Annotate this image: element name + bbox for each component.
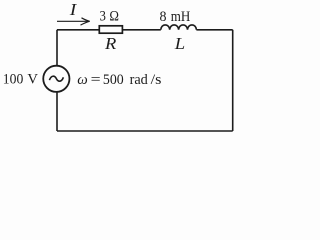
wire left vertical upper [56,30,58,66]
resistor R [99,26,122,33]
wire right vertical [232,30,234,131]
svg-text:500: 500 [103,72,124,88]
svg-text:ω: ω [77,72,88,88]
wire top rail middle segment [123,29,161,31]
svg-text:=: = [91,72,101,88]
svg-text:L: L [174,34,185,53]
sine symbol [49,76,63,81]
wire top rail left segment [57,29,99,31]
source V1 (AC) [43,66,69,92]
svg-text:V: V [27,72,38,88]
inductor L [161,25,197,30]
wire left vertical lower [56,92,58,131]
current arrow [57,20,89,22]
svg-text:mH: mH [171,9,191,25]
svg-text:rad: rad [130,72,149,88]
svg-text:Ω: Ω [109,9,119,25]
wire bottom rail [57,130,233,132]
svg-text:R: R [104,34,117,53]
svg-text:3: 3 [100,9,106,25]
wire top rail right segment [196,29,232,31]
svg-text:/s: /s [151,72,162,88]
svg-text:8: 8 [160,9,167,25]
svg-text:100: 100 [3,72,24,88]
